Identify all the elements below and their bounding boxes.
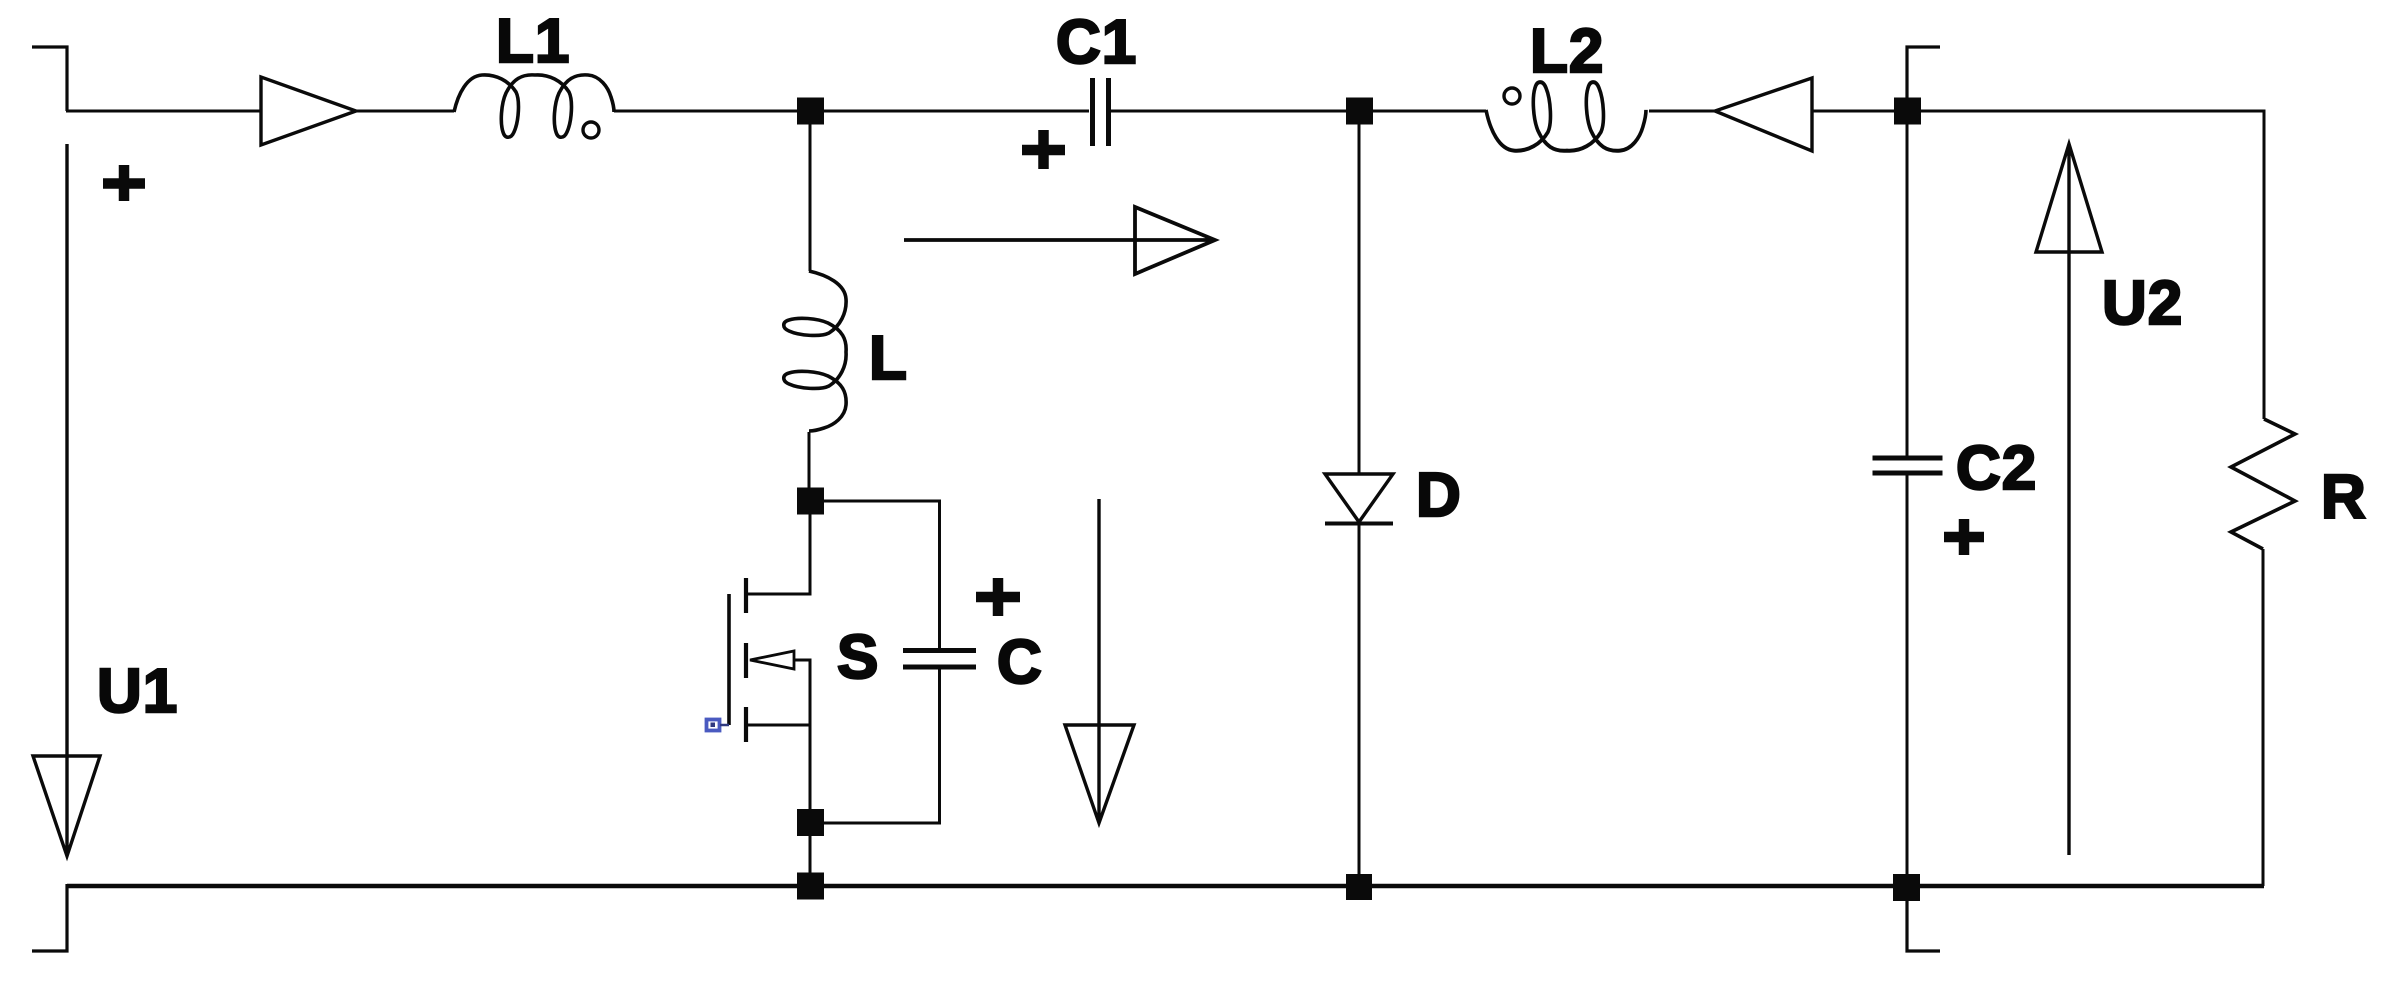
transistor S body-to-source wire [794,660,810,725]
L2 polarity dot [1504,88,1520,104]
inductor L1 [454,75,614,137]
diode D cathode bar [1325,522,1393,526]
input terminal top-left [32,47,67,111]
wire R bottom to bottom rail [2262,549,2265,886]
wire L2 to arrow [1649,110,1894,113]
plus sign of C1 [1022,130,1065,169]
wire node C to top-right corner and down to R [1920,111,2264,419]
plus sign of C [976,578,1020,616]
L1 polarity dot [583,122,599,138]
arrow capacitor current (downward) [1065,499,1134,823]
transistor S source bar [744,707,748,742]
input terminal bottom-left [32,884,67,951]
label S [837,627,879,689]
capacitor C2 plates [1873,458,1943,473]
wire C1 to node B [1111,110,1359,113]
label R [2321,467,2367,529]
node A (top of L branch) [797,98,824,125]
inductor L (vertical) [784,271,846,431]
capacitor C1 [1093,78,1109,146]
transistor S gate line [727,594,731,725]
label U1 [97,661,178,723]
output rail right: terminal top to C2 [1906,124,1909,456]
wire node D to capacitor C (top) [824,501,940,648]
diode D triangle [1325,474,1393,522]
label C1 [1056,12,1137,74]
voltage arrow U1 (downward) [33,144,100,856]
label L2 [1530,21,1604,83]
plus sign of C2 [1944,519,1984,555]
wire node A down to inductor L [809,124,812,271]
wire C2 bottom to node H [1906,475,1909,886]
output terminal bottom-right [1907,886,1940,951]
label D [1416,465,1462,527]
transistor S drain bar [744,578,748,613]
transistor S source wire [746,725,810,809]
node H (bottom rail right) [1893,874,1920,901]
label C [997,632,1043,694]
label L1 [496,11,570,73]
gate port (blue square) [707,720,720,731]
wire diode to bottom rail [1358,525,1361,874]
node C (output top) [1894,98,1921,125]
label L [869,328,908,390]
node F (bottom rail under switch) [797,873,824,900]
arrow C1 current (right-pointing, middle) [904,207,1215,274]
wire top-left horizontal [66,110,454,113]
transistor S body arrow [750,651,794,669]
node E (switch bottom) [797,809,824,836]
output terminal top-right [1907,47,1940,98]
wire node E to bottom rail [809,836,812,874]
label C2 [1956,438,2037,500]
wire node B to L2 [1373,110,1486,113]
wire capacitor C (bottom) to node E [824,669,940,823]
plus sign at U1 top [103,165,145,201]
wire node D to MOSFET drain [747,514,810,594]
wire L1 to node A [614,110,810,113]
wire L to node D [808,432,811,488]
capacitor C plates [903,651,976,668]
node D (switch top) [797,488,824,515]
bottom rail wire [67,884,2264,889]
wire node B down to diode [1358,124,1361,474]
arrow input current (right-pointing) [261,77,356,145]
transistor S body bar [744,643,748,678]
node G (bottom rail under diode) [1346,874,1372,900]
node B (diode top) [1346,98,1373,125]
label U2 [2102,273,2183,335]
arrow output current (left-pointing) [1715,78,1812,151]
resistor R zigzag [2231,419,2295,549]
wire node A to C1 [810,110,1089,113]
voltage arrow U2 (upward) [2036,144,2102,855]
inductor L2 (mirrored) [1486,82,1646,151]
